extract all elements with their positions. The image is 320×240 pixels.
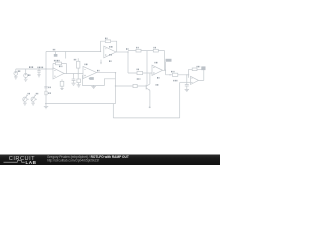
capacitor C9 to ground — [37, 69, 40, 75]
potentiometer P1 — [23, 97, 27, 101]
label R10 — [137, 78, 141, 80]
wire transistor base row — [116, 85, 147, 87]
label LM — [157, 77, 159, 79]
label C1 — [48, 86, 50, 88]
node terminal dot — [149, 106, 151, 108]
label OA4 — [155, 62, 159, 64]
label C9 1u — [38, 66, 44, 68]
label R11 — [171, 71, 175, 73]
resistor R2 feedback A — [56, 62, 62, 65]
label Vx — [97, 70, 99, 72]
ground G6 — [31, 101, 35, 105]
label P2 — [36, 93, 38, 95]
node flag VT — [55, 52, 57, 55]
label Vtri — [29, 66, 34, 68]
wire opamp C output — [116, 51, 128, 53]
resistor R12 feedback E — [192, 68, 197, 71]
ground G8 — [91, 85, 95, 88]
transistor Q1 — [145, 85, 147, 90]
label R1 — [48, 92, 50, 94]
wire right feedback vertical x180 — [179, 82, 181, 118]
capacitor C3 below AB wire — [72, 74, 76, 83]
label 5V — [126, 48, 128, 50]
label V5 — [109, 60, 111, 62]
wire vertical x46 chain — [45, 52, 47, 105]
wire opamp A to B — [64, 73, 83, 75]
voltage source V2 — [24, 74, 28, 78]
resistor R6 feedback C — [105, 40, 110, 43]
label R12 — [197, 66, 201, 68]
resistor R9 on D plus row — [137, 71, 143, 74]
label R8 — [154, 47, 156, 49]
wire opamp C feedback loop — [101, 41, 117, 52]
resistor R10 on base row — [133, 84, 137, 87]
op-amp U2 — [83, 66, 97, 78]
label V2 — [28, 74, 30, 76]
op-amp U5 — [191, 76, 199, 84]
label LM — [109, 54, 111, 56]
logo wire motif — [4, 161, 25, 163]
ground G2 — [24, 79, 28, 81]
label P1 — [28, 93, 30, 95]
logo circuit text — [4, 156, 37, 165]
ground G7 — [71, 83, 75, 85]
op-amp U4 — [152, 65, 163, 75]
wire opamp D plus row — [128, 72, 152, 74]
resistor R11 on E row — [172, 73, 177, 76]
label OA1 — [59, 65, 62, 67]
capacitor C4 to ground E — [185, 75, 189, 90]
svg-text:http://circuitlab.com/c/pb4rb5: http://circuitlab.com/c/pb4rb5pb5k23f — [47, 159, 99, 163]
junction dots — [38, 51, 189, 104]
ground G5 — [23, 101, 27, 105]
label Vt — [53, 49, 55, 51]
label R2 10k — [54, 60, 60, 62]
wire opamp E feedback — [189, 69, 204, 78]
label R11b — [173, 80, 177, 82]
wire top rail — [46, 51, 101, 53]
label R7 — [136, 47, 138, 49]
power arrow VEE — [100, 60, 102, 63]
svg-text:LAB: LAB — [26, 160, 37, 165]
potentiometer P2 — [31, 97, 35, 101]
transistor Q1 emitter lead — [149, 90, 151, 106]
node flag D — [166, 59, 172, 62]
wire input rail y69 — [16, 68, 53, 70]
label R3 — [74, 59, 76, 61]
schematic tiny labels — [18, 38, 200, 93]
wire vertical x128 — [127, 52, 129, 73]
label OA3 — [109, 46, 113, 48]
ground G4 — [44, 104, 48, 109]
wire bottom rail — [113, 104, 179, 118]
label V1 — [18, 70, 20, 72]
label Q1 — [156, 84, 159, 86]
component X1 below — [77, 79, 81, 83]
resistor R7 on D top — [136, 49, 141, 52]
op-amp U3 — [104, 46, 116, 58]
label OA2 — [85, 63, 89, 65]
capacitor C2 below A — [61, 79, 63, 81]
node flag OUT — [201, 66, 205, 70]
wire pot junction rail — [46, 103, 116, 105]
label R9 — [137, 68, 139, 70]
wire opamp E output — [199, 69, 204, 80]
wire opamp D output — [163, 70, 166, 75]
ground G3 — [37, 75, 41, 77]
ground G1 — [14, 77, 18, 79]
op-amp U1 — [53, 68, 64, 79]
resistor R1 on chain — [45, 91, 47, 95]
wire opamp E plus input — [180, 81, 191, 83]
node flag RAMP — [89, 77, 94, 80]
wire opamp E input row — [166, 74, 189, 76]
wire flag D stub — [165, 62, 167, 70]
wire B plus loop — [82, 76, 115, 86]
transistor Q1 collector lead — [149, 73, 151, 84]
wire opamp D feedback top — [128, 51, 164, 71]
wire opamp B output — [97, 73, 116, 104]
resistor R3 — [77, 61, 80, 68]
label R6 — [105, 37, 107, 39]
wire comparator base vertical — [146, 51, 148, 85]
voltage source V1 — [14, 72, 18, 76]
capacitor C1 on chain — [44, 86, 47, 88]
ground G9 — [185, 90, 189, 92]
resistor R8 on D top — [153, 49, 158, 52]
